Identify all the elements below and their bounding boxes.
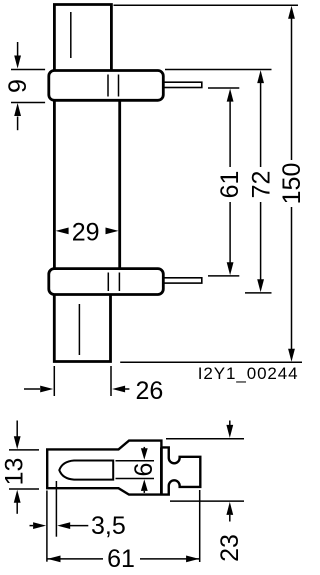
dimension 13 arrow top	[14, 421, 21, 450]
svg-text:23: 23	[216, 534, 244, 562]
dimension 23 arrow bottom	[226, 502, 233, 522]
dimension 26 arrow left	[24, 386, 53, 393]
dimension 23 arrow top	[226, 421, 233, 438]
bottom stub inner tick	[78, 304, 80, 355]
dimension 3,5 arrow left	[30, 522, 47, 529]
terminal blade top	[163, 82, 202, 87]
svg-text:26: 26	[136, 377, 164, 405]
dimension 61b extension right	[199, 490, 201, 562]
clamp C2 tick 1	[107, 273, 109, 292]
tube left edge	[53, 100, 56, 268]
dimension 61 extension bottom	[208, 275, 239, 277]
dimension 9 arrow bottom	[14, 103, 21, 130]
dimension 3,5 extension right	[55, 481, 57, 537]
dimension 29 arrow right	[106, 228, 119, 235]
svg-text:9: 9	[4, 79, 32, 93]
dimension 150 line	[291, 18, 293, 160]
bullet contact inside	[59, 461, 113, 480]
terminal blade bottom	[163, 278, 202, 283]
body outline	[47, 441, 200, 495]
dimension 23 extension bottom	[170, 500, 244, 502]
clamp C1 tick 1	[107, 75, 109, 97]
svg-text:72: 72	[248, 171, 276, 199]
dimension 61 arrow top	[227, 89, 234, 102]
dimension 9 extension top	[11, 69, 45, 71]
slot edge bottom	[116, 478, 155, 480]
dimension 13 extension bottom	[9, 488, 39, 490]
dimension 72 line	[260, 82, 262, 167]
dimension 150 arrow top	[288, 6, 295, 19]
dimension 29 arrow left	[56, 228, 69, 235]
svg-text:3,5: 3,5	[91, 512, 126, 540]
extension line 150 top	[114, 4, 299, 6]
dimension 3,5 arrow right	[57, 522, 88, 529]
dimension 3,5 extension left	[46, 491, 48, 562]
dimension 13 extension top	[9, 449, 39, 451]
clamp rail C2 (bottom rounded rectangle)	[49, 269, 164, 295]
svg-text:I2Y1_00244: I2Y1_00244	[198, 364, 299, 383]
dimension 72 extension bottom	[245, 292, 272, 294]
svg-text:6: 6	[130, 463, 158, 477]
dimension 23 extension top	[166, 438, 244, 440]
dimension 72 arrow bottom	[257, 279, 264, 292]
dimension 6 arrow top	[141, 447, 148, 460]
svg-text:150: 150	[278, 163, 306, 205]
dimension 61b arrow right	[186, 556, 199, 563]
top stub inner tick	[70, 12, 72, 58]
dimension 61b line	[47, 558, 103, 560]
svg-text:13: 13	[1, 458, 29, 486]
tube right edge	[118, 100, 121, 268]
dimension 9 arrow top	[14, 42, 21, 69]
clamp C1 tick 2	[118, 75, 120, 97]
dimension 72 extension top	[165, 69, 272, 71]
bottom stub (lower body section)	[54, 295, 110, 362]
clamp C2 tick 2	[118, 273, 120, 292]
svg-text:61: 61	[107, 545, 135, 573]
dimension 26 extension left	[53, 366, 55, 396]
slot edge top	[116, 460, 155, 462]
svg-text:61: 61	[216, 171, 244, 199]
body right edge behind lug	[160, 447, 163, 494]
top stub (upper body section)	[54, 5, 111, 71]
dimension 61 extension top	[208, 87, 239, 89]
dimension 13 arrow bottom	[14, 490, 21, 514]
dimension 61 arrow bottom	[227, 262, 234, 275]
dimension 150 arrow bottom	[288, 349, 295, 362]
dimension 61b arrow left	[48, 556, 61, 563]
dimension 72 arrow top	[257, 70, 264, 83]
dimension 26 arrow right	[112, 386, 129, 393]
dimension 9 extension bottom	[11, 102, 45, 104]
svg-text:29: 29	[72, 219, 100, 247]
extension line 150 bottom	[120, 361, 302, 363]
clamp rail C1 (top rounded rectangle)	[49, 71, 164, 101]
dimension 6 arrow bottom	[141, 479, 148, 493]
dimension 61 line	[229, 101, 231, 167]
dimension 26 extension right	[110, 366, 112, 396]
